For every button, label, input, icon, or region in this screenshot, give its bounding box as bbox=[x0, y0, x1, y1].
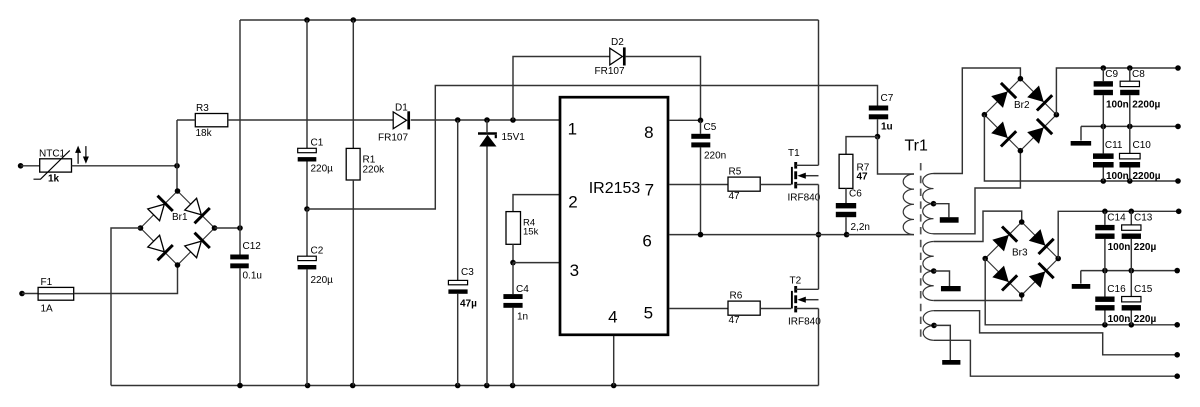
R1 value 220k bbox=[363, 165, 386, 176]
svg-text:R3: R3 bbox=[196, 103, 209, 114]
wire NTC1 to node A bbox=[72, 165, 178, 167]
svg-text:47: 47 bbox=[729, 191, 741, 202]
wire IC pin4 to ground rail bbox=[613, 336, 615, 386]
R7 label bbox=[857, 162, 870, 173]
wire zener leads bbox=[486, 120, 488, 386]
svg-text:FR107: FR107 bbox=[595, 66, 625, 77]
wire IC pin3 to node CT bbox=[513, 262, 560, 264]
capacitor C2 bbox=[298, 256, 317, 269]
wire Br1 left corner to DC- rail bbox=[111, 228, 141, 386]
capacitor C7 bbox=[869, 106, 888, 120]
capacitor C3 bbox=[448, 280, 467, 293]
C12 label bbox=[243, 241, 262, 252]
IC pin number 3 bbox=[570, 261, 579, 280]
capacitor C1 bbox=[298, 148, 317, 161]
transformer Tr1 secondary 2 bbox=[923, 242, 934, 301]
T1 label bbox=[788, 148, 800, 159]
svg-text:C6: C6 bbox=[849, 188, 862, 199]
wire IC pin6 / VS line bbox=[669, 234, 846, 236]
R6 value 47 bbox=[729, 315, 741, 326]
wire C4 leads bbox=[512, 263, 514, 386]
svg-text:100n: 100n bbox=[1108, 242, 1131, 253]
junction Vcc at C3 bbox=[455, 117, 461, 123]
svg-text:Br3: Br3 bbox=[1012, 248, 1028, 259]
C7 value 1u bbox=[881, 122, 893, 133]
svg-text:C1: C1 bbox=[311, 137, 324, 148]
node C6/VS junction bbox=[844, 232, 850, 238]
terminal node AC line input bbox=[18, 163, 40, 169]
wire C2 top lead bbox=[306, 209, 308, 256]
svg-text:1n: 1n bbox=[517, 311, 528, 322]
wire sec2 tap to ground bar bbox=[934, 271, 950, 286]
wire Br3 + to V2+ rail bbox=[1058, 211, 1179, 258]
svg-text:C16: C16 bbox=[1107, 284, 1126, 295]
wire Br2 + to V1+ rail bbox=[1056, 68, 1178, 115]
R3 label bbox=[196, 103, 209, 114]
T2 label bbox=[790, 275, 802, 286]
svg-text:3: 3 bbox=[570, 261, 579, 280]
junction V2mid C13/C15 bbox=[1129, 268, 1135, 274]
node C7/R7/primary junction bbox=[875, 134, 881, 140]
wire sec3 tap to ground bar bbox=[934, 325, 950, 360]
sec1 centre tap node bbox=[931, 201, 937, 207]
junction V1+ C9 bbox=[1101, 65, 1107, 71]
IC pin number 7 bbox=[645, 180, 654, 199]
capacitor C4 bbox=[503, 294, 522, 308]
wire Br1 right corner to DC+ node bbox=[215, 227, 241, 229]
svg-text:C5: C5 bbox=[704, 122, 717, 133]
IC U1 IR2153 body bbox=[560, 97, 668, 335]
svg-text:IRF840: IRF840 bbox=[788, 193, 821, 204]
wire C13 leads bbox=[1130, 211, 1132, 270]
junction bottom rail x=307.6 bbox=[305, 383, 311, 389]
wire sec1 top lead to Br2 bbox=[934, 68, 1021, 174]
wire C6 bottom lead bbox=[845, 217, 847, 234]
svg-text:C11: C11 bbox=[1105, 140, 1123, 151]
node VB junction bbox=[698, 118, 704, 124]
wire V2 mid rail bbox=[1081, 270, 1177, 272]
transformer Tr1 core bbox=[920, 163, 922, 341]
junction bottom rail x=512.6 bbox=[510, 383, 516, 389]
junction V1- C11 bbox=[1101, 178, 1107, 184]
terminal node V1+ bbox=[1175, 65, 1181, 71]
wire node A down to Br1 top bbox=[176, 166, 179, 191]
R4 label bbox=[523, 217, 535, 228]
C11 value 100n bbox=[1106, 171, 1129, 182]
wire C15 leads bbox=[1130, 271, 1132, 325]
wire V1 mid rail bbox=[1081, 125, 1178, 127]
wire C1 top lead bbox=[306, 20, 308, 148]
C7 label bbox=[881, 93, 894, 104]
wire R4 bottom to node CT bbox=[512, 244, 514, 262]
bridge rectifier Br3 bbox=[982, 219, 1061, 298]
svg-text:220µ: 220µ bbox=[1134, 314, 1157, 325]
svg-text:2200µ: 2200µ bbox=[1133, 171, 1161, 182]
wire C9 leads bbox=[1102, 68, 1104, 126]
NTC1 value 1k bbox=[48, 173, 60, 184]
bridge rectifier Br2 bbox=[982, 76, 1060, 154]
svg-text:C10: C10 bbox=[1133, 140, 1152, 151]
wire IC pin2 to R4 bbox=[513, 195, 560, 212]
svg-text:8: 8 bbox=[644, 123, 653, 142]
svg-text:C4: C4 bbox=[516, 284, 529, 295]
svg-text:6: 6 bbox=[642, 232, 651, 251]
R1 label bbox=[363, 154, 376, 165]
svg-text:C7: C7 bbox=[881, 93, 894, 104]
C10 value 2200µ bbox=[1133, 171, 1161, 182]
node VS junction bbox=[816, 232, 822, 238]
junction V2- C15 bbox=[1129, 322, 1135, 328]
junction V2- C16 bbox=[1102, 322, 1108, 328]
svg-text:100n: 100n bbox=[1108, 314, 1131, 325]
capacitor C15 bbox=[1122, 297, 1141, 311]
15V1 label bbox=[502, 132, 526, 143]
terminal node V2 mid bbox=[1174, 268, 1180, 274]
wire R1 top lead bbox=[352, 20, 354, 148]
wire T1 drain to DC+ rail bbox=[818, 20, 820, 165]
C6 value 2,2n bbox=[851, 222, 870, 233]
sec3 centre tap node bbox=[931, 323, 937, 329]
junction bottom rail x=613.7 bbox=[611, 383, 617, 389]
svg-text:IRF840: IRF840 bbox=[788, 317, 821, 328]
C2 label bbox=[311, 245, 324, 256]
junction V2+ C13 bbox=[1129, 209, 1135, 215]
C4 value 1n bbox=[517, 311, 528, 322]
T1 value IRF840 bbox=[788, 193, 821, 204]
C4 label bbox=[516, 284, 529, 295]
R3 value 18k bbox=[196, 128, 213, 139]
ground bar sec2 tap bbox=[941, 286, 961, 291]
D2 label bbox=[611, 37, 624, 48]
C1 value 220µ bbox=[311, 164, 334, 175]
capacitor C14 bbox=[1095, 225, 1114, 239]
resistor R6 bbox=[728, 301, 760, 315]
resistor R1 bbox=[346, 148, 360, 180]
diode D2 bbox=[610, 47, 625, 65]
capacitor C11 bbox=[1093, 153, 1114, 167]
svg-text:7: 7 bbox=[645, 180, 654, 199]
wire sec3 bottom lead to output bbox=[934, 340, 1177, 376]
capacitor C9 bbox=[1094, 81, 1113, 95]
wire sec3 top lead to output bbox=[934, 311, 1177, 355]
junction V2mid C14/C16 bbox=[1102, 268, 1108, 274]
svg-text:C13: C13 bbox=[1134, 212, 1153, 223]
svg-text:220µ: 220µ bbox=[1134, 242, 1157, 253]
wire DC+ top rail bbox=[240, 19, 819, 21]
svg-text:100n: 100n bbox=[1106, 171, 1129, 182]
bridge rectifier Br1 bbox=[138, 188, 218, 268]
wire Br3 - to V2- rail bbox=[985, 259, 1177, 325]
C9 label bbox=[1105, 69, 1118, 80]
junction V1mid C9/C11 bbox=[1101, 124, 1107, 130]
junction Vcc at D2 bbox=[510, 117, 516, 123]
terminal node AC neutral input bbox=[19, 291, 38, 297]
svg-text:Br1: Br1 bbox=[172, 212, 188, 223]
svg-text:15V1: 15V1 bbox=[502, 132, 526, 143]
node C5 to VS junction bbox=[698, 232, 704, 238]
svg-text:D1: D1 bbox=[395, 103, 408, 114]
C5 value 220n bbox=[704, 151, 726, 162]
wire C11 leads bbox=[1102, 126, 1104, 181]
wire C12 leads bbox=[239, 228, 241, 386]
Tr1 label bbox=[905, 138, 929, 155]
C13 label bbox=[1134, 212, 1153, 223]
capacitor C5 bbox=[691, 134, 710, 148]
svg-text:0.1u: 0.1u bbox=[243, 271, 262, 282]
terminal node V2+ bbox=[1176, 209, 1182, 215]
wire C5 top lead bbox=[700, 120, 702, 134]
resistor R4 bbox=[506, 212, 521, 245]
wire IC pin5 to R6 bbox=[669, 308, 728, 310]
transformer Tr1 secondary 3 bbox=[923, 311, 934, 341]
svg-text:1: 1 bbox=[568, 120, 577, 139]
IC pin number 6 bbox=[642, 232, 651, 251]
ground bar sec3 tap bbox=[942, 360, 960, 365]
F1 value 1A bbox=[41, 304, 54, 315]
terminal node AC output 2 bbox=[1174, 373, 1180, 379]
svg-text:R6: R6 bbox=[730, 290, 743, 301]
svg-text:D2: D2 bbox=[611, 37, 624, 48]
wire sec1 bottom lead to Br2 bbox=[934, 151, 1021, 234]
svg-text:47µ: 47µ bbox=[460, 298, 477, 309]
C6 label bbox=[849, 188, 862, 199]
transformer Tr1 secondary 1 bbox=[923, 174, 934, 234]
junction bottom rail x=457.7 bbox=[455, 383, 461, 389]
svg-text:FR107: FR107 bbox=[378, 133, 408, 144]
IC pin number 8 bbox=[644, 123, 653, 142]
D2 value FR107 bbox=[595, 66, 625, 77]
R4 value 15k bbox=[523, 227, 539, 238]
svg-text:2: 2 bbox=[568, 193, 577, 212]
C10 label bbox=[1133, 140, 1152, 151]
terminal node V1 mid bbox=[1175, 124, 1181, 130]
thermistor NTC1 bbox=[34, 151, 72, 180]
terminal node AC output 1 bbox=[1174, 352, 1180, 358]
svg-text:1u: 1u bbox=[881, 122, 893, 133]
NTC1 label bbox=[39, 148, 66, 159]
svg-text:100n: 100n bbox=[1106, 99, 1129, 110]
svg-text:C2: C2 bbox=[311, 245, 324, 256]
wire DC- bottom rail bbox=[111, 385, 819, 387]
resistor R5 bbox=[728, 177, 760, 191]
wire half-bridge midpoint bbox=[818, 185, 820, 290]
junction V1+ C8 bbox=[1127, 65, 1133, 71]
capacitor C6 bbox=[836, 203, 856, 217]
wire R1 bottom lead bbox=[352, 180, 354, 386]
wire D2 anode bbox=[513, 57, 610, 121]
C15 label bbox=[1134, 284, 1153, 295]
svg-text:C15: C15 bbox=[1134, 284, 1153, 295]
sec2 centre tap node bbox=[931, 268, 937, 274]
svg-text:2200µ: 2200µ bbox=[1132, 99, 1160, 110]
wire C8 leads bbox=[1129, 68, 1131, 126]
svg-text:C8: C8 bbox=[1132, 69, 1145, 80]
capacitor C8 bbox=[1120, 81, 1139, 95]
svg-text:2,2n: 2,2n bbox=[851, 222, 870, 233]
svg-text:1k: 1k bbox=[48, 173, 60, 184]
wire C14 leads bbox=[1104, 211, 1106, 270]
IC pin number 5 bbox=[644, 304, 653, 323]
svg-text:220n: 220n bbox=[704, 151, 726, 162]
wire F1 to Br1 bottom bbox=[74, 265, 178, 294]
wire primary top lead bbox=[878, 137, 915, 174]
C3 label bbox=[461, 267, 474, 278]
svg-text:NTC1: NTC1 bbox=[39, 148, 66, 159]
C5 label bbox=[704, 122, 717, 133]
Br3 label bbox=[1012, 248, 1028, 259]
F1 label bbox=[41, 277, 53, 288]
svg-text:C9: C9 bbox=[1105, 69, 1118, 80]
C12 value 0.1u bbox=[243, 271, 262, 282]
svg-text:IR2153: IR2153 bbox=[589, 180, 641, 197]
wire IC pin8 bbox=[669, 119, 700, 121]
node C1/C2 midpoint bbox=[304, 206, 310, 212]
wire R7 to C6 bbox=[845, 188, 847, 203]
wire C1 bottom to midpoint bbox=[306, 162, 308, 210]
wire C7 bottom lead bbox=[877, 119, 879, 136]
junction Vcc at zener bbox=[484, 117, 490, 123]
C13 value 220µ bbox=[1134, 242, 1157, 253]
junction top rail C1 bbox=[304, 17, 310, 23]
fuse F1 bbox=[38, 287, 74, 300]
transformer Tr1 primary winding bbox=[903, 174, 914, 235]
D1 label bbox=[395, 103, 408, 114]
svg-text:220µ: 220µ bbox=[311, 275, 334, 286]
svg-text:C3: C3 bbox=[461, 267, 474, 278]
C9 value 100n bbox=[1106, 99, 1129, 110]
R7 value 47 bbox=[857, 172, 869, 183]
C16 value 100n bbox=[1108, 314, 1131, 325]
wire C10 leads bbox=[1129, 126, 1131, 181]
ground bar V2 mid bbox=[1072, 284, 1091, 289]
svg-text:T2: T2 bbox=[790, 275, 802, 286]
svg-text:220µ: 220µ bbox=[311, 164, 334, 175]
ground bar V1 mid bbox=[1071, 141, 1092, 146]
C3 value 47µ bbox=[460, 298, 477, 309]
node DC+ at C12 bbox=[237, 225, 243, 231]
IC pin number 1 bbox=[568, 120, 577, 139]
C2 value 220µ bbox=[311, 275, 334, 286]
IC pin number 4 bbox=[608, 307, 617, 326]
wire T2 source to ground rail bbox=[818, 309, 820, 386]
svg-text:C14: C14 bbox=[1107, 212, 1126, 223]
svg-text:15k: 15k bbox=[523, 227, 539, 238]
capacitor C10 bbox=[1120, 153, 1141, 167]
wire C2 bottom lead bbox=[306, 269, 308, 385]
T2 value IRF840 bbox=[788, 317, 821, 328]
svg-text:18k: 18k bbox=[196, 128, 213, 139]
wire Br2 - to V1- rail bbox=[984, 115, 1178, 181]
capacitor C16 bbox=[1095, 297, 1114, 311]
junction bottom rail x=352.7 bbox=[350, 383, 356, 389]
wire node to R7 bbox=[846, 137, 878, 155]
C16 label bbox=[1107, 284, 1126, 295]
IC name IR2153 bbox=[589, 180, 641, 197]
R6 label bbox=[730, 290, 743, 301]
svg-text:5: 5 bbox=[644, 304, 653, 323]
wire C3 leads bbox=[457, 120, 459, 386]
C14 value 100n bbox=[1108, 242, 1131, 253]
wire Vcc line R3 to IC pin1 bbox=[177, 119, 560, 121]
node CT junction bbox=[510, 260, 516, 266]
transistor T1 bbox=[792, 162, 819, 188]
wire sec2 top lead to Br3 bbox=[934, 211, 1022, 241]
wire DC+ vertical to top rail bbox=[239, 20, 241, 228]
C8 value 2200µ bbox=[1132, 99, 1160, 110]
wire sec1 tap to ground bar bbox=[934, 204, 949, 218]
junction bottom rail x=486.8 bbox=[484, 383, 490, 389]
R5 label bbox=[729, 166, 742, 177]
svg-text:Tr1: Tr1 bbox=[905, 138, 929, 155]
wire D2 cathode to pin8 node bbox=[626, 57, 701, 121]
svg-text:C12: C12 bbox=[243, 241, 262, 252]
svg-text:R5: R5 bbox=[729, 166, 742, 177]
svg-text:47: 47 bbox=[857, 172, 869, 183]
wire C5 bottom lead bbox=[700, 147, 702, 234]
wire node A up to R3 bbox=[176, 120, 178, 166]
C11 label bbox=[1105, 140, 1123, 151]
terminal node V1- bbox=[1175, 178, 1181, 184]
wire primary bottom lead (VS) bbox=[847, 234, 914, 236]
Br1 label bbox=[172, 212, 188, 223]
D1 value FR107 bbox=[378, 133, 408, 144]
junction V2+ C14 bbox=[1102, 209, 1108, 215]
C14 label bbox=[1107, 212, 1126, 223]
Br2 label bbox=[1014, 100, 1030, 111]
junction V1- C10 bbox=[1127, 178, 1133, 184]
resistor R3 bbox=[195, 114, 228, 127]
wire R6 to T2 gate bbox=[760, 308, 791, 310]
transistor T2 bbox=[792, 286, 819, 312]
capacitor C13 bbox=[1122, 225, 1141, 239]
R5 value 47 bbox=[729, 191, 741, 202]
ground bar sec1 tap bbox=[940, 217, 959, 223]
diode D1 bbox=[393, 111, 409, 129]
wire midpoint to C7 net bbox=[307, 86, 878, 210]
svg-text:F1: F1 bbox=[41, 277, 53, 288]
wire C16 leads bbox=[1104, 271, 1106, 325]
junction bottom rail x=240 bbox=[237, 383, 243, 389]
C1 label bbox=[311, 137, 324, 148]
wire IC pin7 to R5 bbox=[669, 184, 728, 186]
svg-text:220k: 220k bbox=[363, 165, 386, 176]
wire V2 mid ground stem bbox=[1080, 271, 1082, 284]
wire R5 to T1 gate bbox=[760, 184, 791, 186]
svg-text:Br2: Br2 bbox=[1014, 100, 1030, 111]
svg-text:T1: T1 bbox=[788, 148, 800, 159]
svg-text:4: 4 bbox=[608, 307, 617, 326]
terminal node V2- bbox=[1174, 322, 1180, 328]
wire V1 mid ground stem bbox=[1080, 126, 1082, 140]
IC pin number 2 bbox=[568, 193, 577, 212]
wire sec2 bottom lead to Br3 bbox=[934, 295, 1022, 301]
NTC1 arrows bbox=[75, 146, 89, 164]
svg-text:1A: 1A bbox=[41, 304, 54, 315]
C15 value 220µ bbox=[1134, 314, 1157, 325]
resistor R7 bbox=[839, 154, 853, 188]
junction top rail R1 bbox=[351, 17, 357, 23]
capacitor C12 bbox=[230, 255, 249, 269]
C8 label bbox=[1132, 69, 1145, 80]
svg-text:47: 47 bbox=[729, 315, 741, 326]
junction V1mid C8/C10 bbox=[1127, 124, 1133, 130]
node A junction bbox=[174, 163, 180, 169]
zener diode 15V1 bbox=[478, 134, 497, 147]
